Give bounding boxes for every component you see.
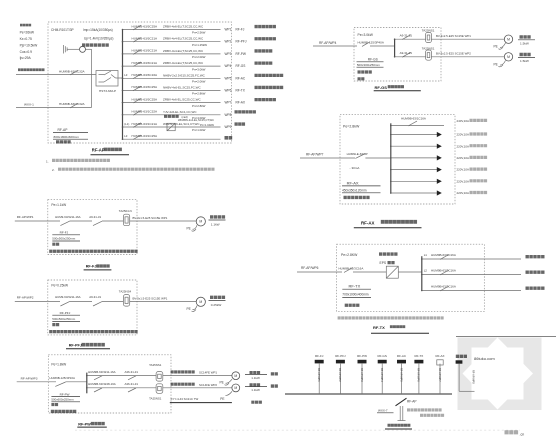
svg-text:HUM9B-63/3C25A: HUM9B-63/3C25A: [132, 97, 159, 101]
svg-text:RF-PFJ: RF-PFJ: [60, 311, 71, 315]
svg-text:HUM9B-63/3248-16A: HUM9B-63/3248-16A: [88, 382, 116, 386]
emergency lighting branch 2: breaker + wire: [422, 274, 521, 276]
branch load label: [526, 255, 545, 258]
branch row WP7: wire: [123, 102, 221, 104]
svg-text:HUM9B-63/3C16A: HUM9B-63/3C16A: [431, 285, 456, 289]
svg-text:240V,16A: 240V,16A: [457, 119, 470, 123]
svg-text:Pn=2.0kW: Pn=2.0kW: [192, 80, 206, 84]
svg-text:RF-AX: RF-AX: [236, 101, 246, 105]
svg-text:CHM-R101T/3P: CHM-R101T/3P: [51, 28, 74, 32]
svg-text:TA2504-N: TA2504-N: [119, 209, 132, 213]
busbar RF-GS: [394, 39, 396, 57]
svg-text:A9-31-31: A9-31-31: [400, 51, 413, 55]
svg-text:M: M: [507, 38, 510, 42]
svg-text:RF-AP/WP7: RF-AP/WP7: [306, 152, 324, 156]
branch row WP3: wire: [123, 53, 221, 55]
incoming feeder N1 label: [18, 68, 45, 71]
svg-text:A9-31-31: A9-31-31: [89, 295, 101, 299]
svg-text:Pe=0.25kW: Pe=0.25kW: [51, 283, 68, 287]
svg-text:RF-TX: RF-TX: [236, 88, 246, 92]
svg-text:M: M: [199, 300, 202, 304]
modular terminal branch 6: wire + arrow: [391, 180, 437, 182]
SPD note (bold): [82, 43, 109, 46]
svg-text:M: M: [234, 386, 237, 390]
svg-text:Cos=0.9: Cos=0.9: [20, 50, 33, 54]
service source label: [407, 408, 442, 411]
svg-text:WDZBN-2x4-EL,SC15,CT,WC: WDZBN-2x4-EL,SC15,CT,WC: [178, 118, 214, 122]
svg-text:BV-3x2.5-E25 SC15E WP1: BV-3x2.5-E25 SC15E WP1: [436, 34, 471, 38]
panel RF-PFJ enclosure: [48, 280, 137, 335]
svg-text:PE: PE: [220, 397, 224, 401]
feeder wire RF-AP/WP7: [300, 157, 355, 159]
EPS note: [338, 316, 444, 319]
load description: [235, 110, 256, 113]
svg-text:HUM9B-63/1C32A: HUM9B-63/1C32A: [132, 110, 159, 114]
branch row spare: wire: [123, 138, 221, 140]
svg-text:220V,10A: 220V,10A: [457, 156, 470, 160]
feeder wire RF-AP/WP1: [15, 220, 60, 222]
fan label: [210, 215, 225, 218]
riser busbar: [285, 393, 452, 395]
svg-text:ZRBV-4x4-EL(T,SC25,CC,WC: ZRBV-4x4-EL(T,SC25,CC,WC: [163, 49, 204, 53]
svg-text:500x500x250mm: 500x500x250mm: [52, 237, 76, 241]
svg-text:500x300x250mm: 500x300x250mm: [357, 63, 381, 67]
svg-text:RF-AX: RF-AX: [361, 220, 374, 225]
svg-text:Pn=2.5kW: Pn=2.5kW: [192, 31, 206, 35]
fan label: [250, 371, 261, 374]
motor M fan: [196, 217, 205, 226]
load description: [235, 122, 246, 125]
load description: [254, 86, 283, 89]
branch load label: [526, 287, 545, 290]
SPD symbol + fuse: [63, 45, 65, 54]
svg-text:Pn=1.04kW: Pn=1.04kW: [200, 123, 214, 127]
earth label: [251, 401, 262, 404]
fan branch WP2: breaker + contactor: [87, 387, 156, 389]
svg-text:1.5kW: 1.5kW: [520, 59, 529, 63]
svg-text:WP2: WP2: [225, 40, 232, 44]
emergency lighting branch 3: breaker + wire: [422, 290, 521, 292]
svg-text:RF-AP/WP2: RF-AP/WP2: [17, 295, 34, 299]
PE hook: [226, 391, 233, 395]
svg-text:HUM9B-63/3211-16A: HUM9B-63/3211-16A: [88, 370, 115, 374]
svg-text:RF-AP:WP6: RF-AP:WP6: [417, 368, 420, 382]
svg-text:WP5: WP5: [225, 76, 232, 80]
junction box label: [271, 384, 278, 387]
svg-text:HUM9B-63/1C25A: HUM9B-63/1C25A: [132, 134, 159, 138]
svg-text:RF-PFJ: RF-PFJ: [236, 40, 247, 44]
svg-text:RF-AP/WP1: RF-AP/WP1: [17, 215, 34, 219]
wire ATS to busbar: [118, 77, 123, 79]
svg-text:Imp=15kA(10/350µs): Imp=15kA(10/350µs): [83, 28, 113, 32]
svg-text:2.: 2.: [52, 168, 55, 172]
svg-text:RF-AP: RF-AP: [92, 148, 105, 153]
svg-text:RF-AP/WP3: RF-AP/WP3: [21, 377, 38, 381]
busbar RF-PW: [86, 373, 88, 394]
svg-text:Pn=2.0kW: Pn=2.0kW: [192, 55, 206, 59]
svg-text:L1: L1: [424, 253, 428, 257]
svg-text:BV-3x2.5-E25 SC15E WP2: BV-3x2.5-E25 SC15E WP2: [436, 51, 471, 55]
svg-text:Pe=2.8KW: Pe=2.8KW: [341, 253, 358, 257]
motor M supply fan: [232, 384, 240, 392]
svg-text:RF-FJ: RF-FJ: [236, 28, 245, 32]
load description: [254, 25, 275, 28]
svg-text:L3: L3: [124, 134, 128, 138]
load-calc table text: [20, 24, 31, 27]
svg-text:RF-PW: RF-PW: [60, 392, 70, 396]
svg-text:M: M: [199, 220, 202, 224]
svg-text:RF-PW: RF-PW: [357, 354, 367, 358]
svg-text:HUM9B-63/3C32A: HUM9B-63/3C32A: [59, 70, 86, 74]
branch row WP1: wire: [123, 29, 221, 31]
svg-text:A9-31-31: A9-31-31: [400, 34, 413, 38]
EPS labels: [379, 252, 398, 255]
svg-text:HUM9B-125/3P40A: HUM9B-125/3P40A: [358, 41, 384, 45]
svg-text:WP4: WP4: [225, 64, 232, 68]
motor M pump WP1: [504, 35, 512, 43]
motor M pump WP2: [504, 53, 512, 61]
svg-text:RF-AP:WP2: RF-AP:WP2: [338, 368, 341, 382]
svg-text:RF-PFJ: RF-PFJ: [69, 343, 82, 347]
svg-text:RF-AC: RF-AC: [397, 354, 407, 358]
svg-text:RF-PW: RF-PW: [78, 422, 91, 426]
svg-text:220V,10A: 220V,10A: [457, 168, 470, 172]
svg-text:RF-TX: RF-TX: [373, 325, 385, 330]
pump label: [520, 53, 531, 56]
svg-text:RF-PFJ: RF-PFJ: [335, 354, 346, 358]
svg-text:HUM9B-63/3C21A: HUM9B-63/3C21A: [132, 49, 159, 53]
EPS box: [386, 266, 398, 278]
panel RF-AX enclosure: [340, 115, 455, 204]
svg-text:YJV-4x6-EL,SC1,CC,WC: YJV-4x6-EL,SC1,CC,WC: [163, 110, 197, 114]
svg-text:RF-GS: RF-GS: [368, 58, 378, 62]
incoming feeder N2: wire WXX-1: [16, 107, 92, 109]
svg-text:1.1kW: 1.1kW: [211, 222, 220, 226]
busbar (vertical): [122, 30, 124, 140]
svg-text:ZRBV-4x4-EL(T,SC25,CC,WC: ZRBV-4x4-EL(T,SC25,CC,WC: [163, 61, 204, 65]
svg-text:220V,10A: 220V,10A: [457, 144, 470, 148]
second-class load note (bold): [49, 250, 137, 253]
svg-text:PE: PE: [220, 381, 224, 385]
svg-text:Pe=2.8kW: Pe=2.8kW: [343, 124, 360, 128]
svg-text:30mA: 30mA: [352, 166, 360, 170]
load description: [254, 98, 275, 101]
panel RF-GS enclosure: [354, 28, 441, 82]
emergency lighting branch 1: breaker + wire: [422, 258, 521, 260]
svg-text:(L1): (L1): [124, 122, 129, 126]
svg-text:RF-GS: RF-GS: [236, 64, 246, 68]
motor M fan: [196, 297, 205, 306]
svg-text:RF-GS: RF-GS: [378, 354, 387, 358]
second-class load note (bold): [49, 330, 137, 333]
motor M supply fan: [232, 372, 240, 380]
svg-text:220V,10A: 220V,10A: [457, 191, 470, 195]
svg-text:HUM9B-63/3C16A: HUM9B-63/3C16A: [132, 73, 159, 77]
panel RF-FJ enclosure: [48, 200, 137, 255]
svg-text:RF-FJ: RF-FJ: [315, 354, 324, 358]
title riser diagram: [388, 424, 411, 427]
svg-text:HUM9B-63/3C16A: HUM9B-63/3C16A: [431, 253, 456, 257]
svg-text:M: M: [234, 374, 237, 378]
svg-text:Pn=2.8kW: Pn=2.8kW: [192, 92, 206, 96]
svg-text:L2: L2: [424, 269, 428, 273]
svg-text:Kx=0.75: Kx=0.75: [20, 37, 32, 41]
svg-text:HUM9B-63/1C21A: HUM9B-63/1C21A: [132, 122, 159, 126]
svg-text:Pn=1.0kW: Pn=1.0kW: [192, 128, 206, 132]
svg-text:M: M: [507, 55, 510, 59]
svg-text:PE: PE: [494, 62, 498, 66]
svg-text:HUM9B-63/3C21A: HUM9B-63/3C21A: [132, 37, 159, 41]
svg-text:1.5kW: 1.5kW: [520, 41, 529, 45]
load description: [225, 136, 233, 140]
panel RF-AP enclosure (dashed): [48, 22, 232, 143]
svg-text:PE: PE: [187, 307, 191, 311]
svg-text:HUM9B-63/3C25A: HUM9B-63/3C25A: [132, 85, 159, 89]
branch row WP6: wire: [123, 89, 221, 91]
svg-text:1.1kW: 1.1kW: [251, 376, 260, 380]
moisture-proof note (bold): [51, 410, 77, 413]
svg-text:RF-AP: RF-AP: [407, 400, 417, 404]
svg-text:RF-PW: RF-PW: [236, 52, 246, 56]
svg-text:RF-FJ: RF-FJ: [86, 265, 97, 269]
svg-text:Up=1.4kV(10/350µs): Up=1.4kV(10/350µs): [84, 37, 113, 41]
svg-text:220V,10A: 220V,10A: [457, 179, 470, 183]
wire to pump motor WP2: [431, 56, 504, 58]
svg-text:Pjs=19.5kW: Pjs=19.5kW: [20, 43, 39, 47]
svg-text:HUM9B-63/3C32A: HUM9B-63/3C32A: [59, 102, 86, 106]
svg-text:1.: 1.: [46, 159, 49, 163]
contactor A9-31-31 branch WP2: [395, 56, 426, 58]
incoming feeder N1: wire: [16, 74, 96, 76]
busbar RF-TX: [421, 256, 423, 290]
svg-text:RF-AP/WP4: RF-AP/WP4: [319, 41, 337, 45]
svg-text:WP1: WP1: [225, 28, 232, 32]
svg-text:Pn=1.25kW: Pn=1.25kW: [192, 43, 207, 47]
svg-text:HUM9-63/3211-16A: HUM9-63/3211-16A: [55, 295, 81, 299]
svg-text:86tuku.com: 86tuku.com: [474, 356, 495, 361]
svg-text:RF-AP:WP3: RF-AP:WP3: [360, 368, 363, 382]
branch row WP8: wire: [123, 114, 221, 116]
faint footer rule: [75, 429, 520, 431]
svg-text:RF-AP:WP5: RF-AP:WP5: [399, 368, 402, 382]
load description: [254, 62, 272, 65]
svg-text:RF-FJ: RF-FJ: [60, 230, 69, 234]
svg-text:WP3: WP3: [225, 52, 232, 56]
branch row WP9: wire: [123, 126, 221, 128]
fan label: [210, 296, 225, 299]
branch load label: [526, 271, 545, 274]
svg-text:SC14FE WP2: SC14FE WP2: [199, 383, 217, 387]
svg-text:TA25NS4: TA25NS4: [119, 289, 132, 293]
svg-text:HUM9B-125/3P16A: HUM9B-125/3P16A: [50, 376, 75, 380]
lighting contactor box: [167, 123, 175, 130]
modular terminal branch 7: wire + arrow: [391, 192, 437, 194]
modular terminal branch 3: wire + arrow: [391, 145, 437, 147]
svg-text:HUM9B-63/3C21A: HUM9B-63/3C21A: [132, 61, 159, 65]
feeder wire RF-AP/WP3: [17, 381, 56, 383]
panel RF-PW enclosure: [48, 355, 171, 413]
load description: [254, 49, 272, 52]
svg-text:WP8: WP8: [225, 113, 232, 117]
svg-text:KYY-4-43 SC21C TW: KYY-4-43 SC21C TW: [171, 397, 199, 401]
feeder wire RF-AP/WP2: [15, 300, 60, 302]
svg-text:0.25kW: 0.25kW: [211, 303, 222, 307]
svg-text:Pe=1.8kW: Pe=1.8kW: [51, 363, 66, 367]
svg-text:HUM9B-63/1C16A: HUM9B-63/1C16A: [401, 116, 426, 120]
svg-text:RF-AX: RF-AX: [347, 180, 359, 185]
svg-text:.cn: .cn: [520, 433, 525, 437]
svg-text:450x350x120mm: 450x350x120mm: [342, 188, 367, 192]
svg-text:Pn=3.0kW: Pn=3.0kW: [192, 67, 206, 71]
svg-text:TA25NS1: TA25NS1: [149, 363, 162, 367]
wire to supply fan WP1: [163, 375, 232, 377]
svg-text:ZRBV-4x4-EL(T,SC25,CC,WC: ZRBV-4x4-EL(T,SC25,CC,WC: [163, 37, 204, 41]
svg-text:RF-AP: RF-AP: [58, 128, 69, 132]
svg-text:A36-31-31: A36-31-31: [125, 370, 139, 374]
wire to fan motor: [130, 220, 196, 222]
modular terminal branch 2: wire + arrow: [391, 134, 437, 136]
svg-text:Pe=1.1kW: Pe=1.1kW: [51, 203, 66, 207]
svg-text:ZRBV-4x6-EL,SC25,CC,WC: ZRBV-4x6-EL,SC25,CC,WC: [163, 98, 202, 102]
svg-text:220V,10A: 220V,10A: [457, 133, 470, 137]
svg-text:WP6: WP6: [225, 88, 232, 92]
panel RF-TX enclosure: [337, 244, 485, 311]
fan branch WP1: breaker + contactor: [87, 375, 156, 377]
ATS transfer switch box HST3-63/LP: [96, 71, 118, 87]
svg-text:Ijs=29A: Ijs=29A: [20, 56, 32, 60]
svg-text:500x600x250mm: 500x600x250mm: [51, 398, 74, 402]
svg-text:A36-31-31: A36-31-31: [125, 382, 139, 386]
svg-text:800x1800x600mm: 800x1800x600mm: [54, 135, 80, 139]
svg-text:RF-AP/WP6: RF-AP/WP6: [301, 266, 319, 270]
modular terminal branch 4: wire + arrow: [391, 157, 437, 159]
svg-text:RF-AC: RF-AC: [236, 76, 246, 80]
service entry: main switch RF-AP: [396, 398, 407, 406]
junction box label: [271, 372, 278, 375]
branch row WP5: wire: [123, 77, 221, 79]
footer site mark: [505, 430, 519, 434]
wire EPS to busbar: [398, 271, 422, 273]
wire to pump motor WP1: [431, 38, 504, 40]
feeder wire RF-AP/WP6: [297, 271, 342, 273]
svg-text:HST3-63/LP: HST3-63/LP: [99, 89, 116, 93]
svg-text:HUM9B-63/3C16A: HUM9B-63/3C16A: [431, 269, 456, 273]
svg-text:TA25NS1: TA25NS1: [149, 397, 162, 401]
watermark top rule: [456, 335, 556, 337]
watermark grey plate: [458, 338, 542, 411]
svg-text:NHBV-4x6-EL,SC25,FC,WC: NHBV-4x6-EL,SC25,FC,WC: [163, 85, 202, 89]
svg-text:RF-TX: RF-TX: [349, 284, 361, 289]
svg-text:ZRBV-4x6-EL(T,SC25,CC,WC: ZRBV-4x6-EL(T,SC25,CC,WC: [163, 25, 204, 29]
pump label: [520, 35, 531, 38]
svg-text:Pn=2.8kW: Pn=2.8kW: [192, 104, 206, 108]
svg-text:RF-TX: RF-TX: [414, 354, 423, 358]
svg-text:RF-AX: RF-AX: [436, 354, 445, 358]
extra riser panel mark over watermark: [456, 355, 467, 358]
svg-text:WDZN-2x6-EL,SC1,CT,WC: WDZN-2x6-EL,SC1,CT,WC: [163, 122, 200, 126]
load description: [254, 37, 275, 40]
svg-text:Pe=3.0kW: Pe=3.0kW: [358, 33, 374, 37]
svg-text:SC14FE WP1: SC14FE WP1: [199, 371, 217, 375]
thermal relay TA25NS1: [156, 372, 163, 382]
svg-text:PE: PE: [187, 227, 191, 231]
fan label: [250, 383, 261, 386]
wire to supply fan WP2: [163, 387, 232, 389]
svg-text:PE: PE: [494, 45, 498, 49]
svg-text:WP9: WP9: [225, 125, 232, 129]
svg-text:NHBV-2x2.5-E15,SC25,FC,WC: NHBV-2x2.5-E15,SC25,FC,WC: [163, 73, 206, 77]
SPD riser wire: [91, 49, 93, 107]
svg-text:HUM9-63/3211-16A: HUM9-63/3211-16A: [55, 215, 81, 219]
svg-text:RF-AP:WP1: RF-AP:WP1: [317, 368, 320, 382]
svg-text:Pe=26kW: Pe=26kW: [20, 31, 35, 35]
svg-text:RF-AP:WP7: RF-AP:WP7: [438, 368, 441, 382]
load description: [254, 74, 283, 77]
svg-text:WP7: WP7: [225, 101, 232, 105]
svg-text:RF-GS: RF-GS: [375, 85, 388, 90]
svg-text:700x1000x400mm: 700x1000x400mm: [342, 293, 369, 297]
thermal relay TA25NS1: [156, 384, 163, 394]
svg-text:WXX-7: WXX-7: [378, 408, 388, 412]
watermark 8-point star (diamond + square): [463, 338, 534, 410]
street-light control note (bold): [164, 115, 179, 118]
svg-text:L3: L3: [124, 73, 128, 77]
svg-text:-: -: [350, 166, 351, 170]
svg-text:HUM9B-63/3C25A: HUM9B-63/3C25A: [132, 24, 159, 28]
svg-text:1.1kW: 1.1kW: [251, 388, 260, 392]
modular terminal branch 5: wire + arrow: [391, 169, 437, 171]
branch row 1 breaker HUM9B-63/1C16A: [391, 125, 444, 127]
svg-text:RF-AP:WP8: RF-AP:WP8: [472, 370, 475, 384]
contactor A9-31-31 branch WP1: [395, 38, 426, 40]
svg-text:A9-31-31: A9-31-31: [89, 215, 101, 219]
feeder wire RF-AP/WP4: [313, 45, 357, 47]
wire to fan motor: [130, 300, 196, 302]
branch row WP2: wire: [123, 41, 221, 43]
busbar RF-AX: [390, 123, 392, 193]
svg-text:RF-AP:WP4: RF-AP:WP4: [380, 368, 383, 382]
svg-text:WXX-1: WXX-1: [24, 102, 34, 106]
svg-text:500x500x250mm: 500x500x250mm: [52, 317, 76, 321]
branch row WP4: wire: [123, 65, 221, 67]
svg-text:EPS: EPS: [380, 261, 387, 265]
svg-text:BV-3x1.5-E25 SC15E WP1: BV-3x1.5-E25 SC15E WP1: [133, 216, 168, 220]
svg-text:BV-3x1.5-E25 SC15E WP1: BV-3x1.5-E25 SC15E WP1: [133, 297, 168, 301]
